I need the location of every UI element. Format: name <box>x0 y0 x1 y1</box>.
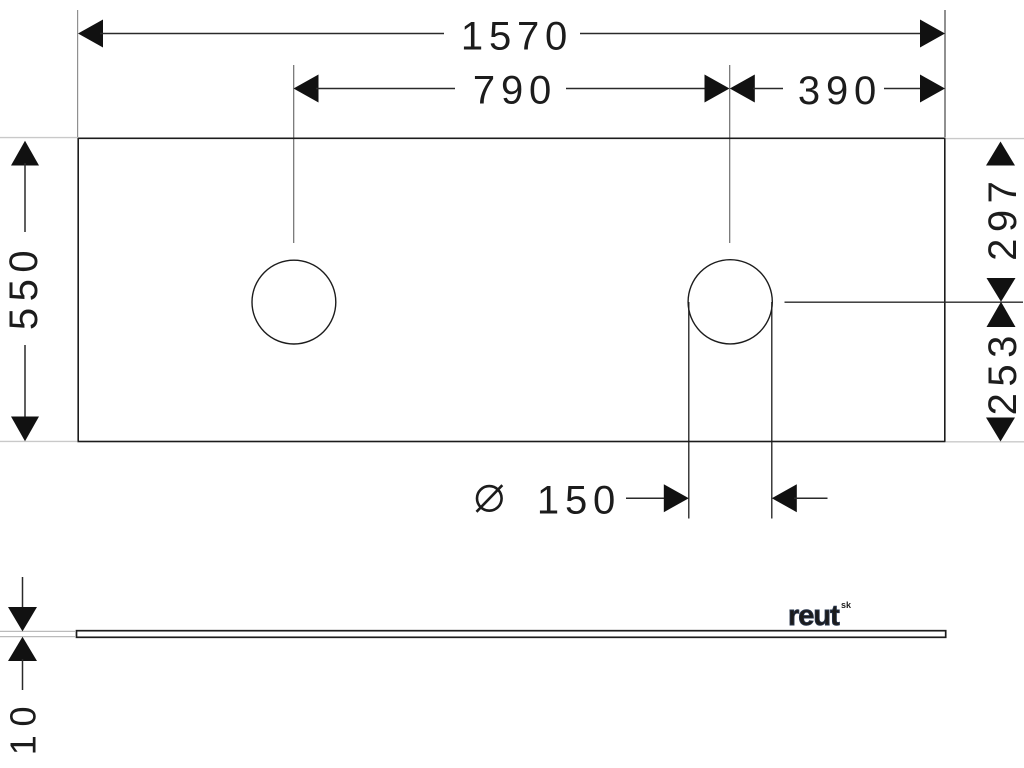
svg-text:550: 550 <box>2 244 46 330</box>
svg-text:sk: sk <box>841 600 852 610</box>
svg-text:390: 390 <box>798 69 882 113</box>
svg-text:reut: reut <box>788 600 840 632</box>
svg-text:10: 10 <box>3 698 44 755</box>
svg-text:1570: 1570 <box>461 15 573 59</box>
svg-text:150: 150 <box>537 479 621 523</box>
svg-text:790: 790 <box>473 69 557 113</box>
svg-text:297: 297 <box>981 175 1024 261</box>
svg-text:253: 253 <box>981 329 1024 415</box>
